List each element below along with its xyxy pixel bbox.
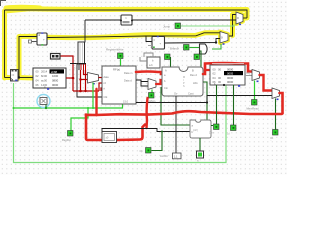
svg-text:0000: 0000 (52, 83, 59, 87)
wire: PC select / bottom loop (pale green) (14, 83, 227, 163)
svg-text:1,1: 1,1 (174, 155, 178, 159)
junction: instruction bus dots (95, 113, 98, 116)
svg-text:1000: 1000 (52, 74, 59, 78)
svg-text:04: 04 (36, 79, 40, 83)
wire: ALU Cin dark green down to ALUctl input 1 (161, 87, 190, 125)
svg-text:0000: 0000 (227, 80, 234, 84)
wire: Data B black to ALUSrc mux (136, 80, 148, 86)
wire: Jump signal to jump mux select (light green) (181, 25, 234, 27)
wire: black L from sign-ext top across to ALU control (102, 129, 190, 132)
svg-text:06: 06 (36, 83, 40, 87)
svg-text:ALUFn: ALUFn (160, 154, 169, 158)
multiplexer ALUSrc mux (148, 79, 156, 90)
svg-text:HIG: HIG (193, 81, 198, 85)
wire: rs/rt fields down from splitter (red) (80, 70, 82, 91)
pin ALUSrc (149, 93, 155, 99)
component: instruction field splitter (narrow vertical box) (70, 42, 86, 70)
svg-text:2014: 2014 (41, 70, 48, 74)
component: jump address box (120, 15, 133, 25)
svg-text:data: data (104, 75, 110, 79)
wire: RegWrite down into register file (120, 59, 122, 66)
svg-text:MemRead: MemRead (247, 107, 260, 111)
component: register file (102, 66, 136, 104)
svg-text:00: 00 (218, 67, 222, 71)
svg-text:0800: 0800 (52, 79, 59, 83)
wire: RegDst control staircase to RegDst pin (71, 108, 88, 131)
yellow highlight: PC feedback loop (selected wires) (5, 9, 248, 78)
wire: RegDst mux select down (bright green) (92, 83, 94, 109)
svg-text:2c88: 2c88 (51, 70, 58, 74)
svg-text:Data m: Data m (124, 71, 132, 75)
wire: ALU result branch down to RAM address (205, 64, 210, 71)
pin Zero (green square under RAM) (214, 124, 220, 130)
wire: ALUSrc select (151, 90, 153, 94)
svg-text:RF(a): RF(a) (113, 68, 120, 72)
wire: jump addr from splitter up to jump box (85, 19, 121, 21)
wire: ALUSrc mux output to ALU b (156, 80, 162, 84)
constant 4 for adder (31, 41, 37, 43)
component: branch target adder (148, 36, 165, 49)
svg-text:Branch: Branch (170, 47, 180, 51)
svg-text:000: 000 (246, 72, 251, 75)
wire: branch mux output up to jump mux input 0 (229, 15, 236, 37)
pin RegDst (68, 131, 74, 137)
component: ALU control (chip with notch) (190, 120, 211, 138)
wire: jump address bus (black, jump box to jump mux input 1) (132, 19, 236, 21)
wire: ALU result (thick red) right, up and across RAM top (203, 63, 252, 74)
pin MemWrite (231, 125, 237, 131)
svg-text:A: A (165, 69, 167, 73)
svg-text:00: 00 (36, 70, 40, 74)
wire: read-address bus along y=91 into regfile (73, 90, 99, 92)
component: instruction probe box (51, 54, 61, 60)
svg-text:RegDst: RegDst (62, 138, 71, 142)
svg-text:15,0: 15,0 (123, 100, 129, 104)
svg-text:02: 02 (36, 74, 40, 78)
multiplexer RegDst mux (88, 73, 99, 85)
wire: control line RegWrite row (bright green horizontal) (14, 104, 123, 108)
multiplexer jump mux (top right) (236, 12, 243, 24)
component: ALU (chip with top notch) (162, 67, 203, 96)
wire: clock-ish line from splitter to regfile clk (77, 70, 102, 97)
svg-text:rt: rt (104, 87, 106, 91)
wire: instruction vertical riser to probe (60, 56, 73, 91)
gate: AND (Branch & Zero) (200, 44, 208, 54)
wire: ALU HIG out jog down to ALUctl top (203, 82, 207, 120)
wire: dark green from RAM bottom to Zero square (216, 85, 218, 124)
component: PC+4 adder (37, 32, 47, 45)
node: blue floating select marks on muxes (239, 24, 241, 26)
wire: Data A thick red to ALU a (136, 72, 162, 75)
wire: WB mux select down to MemRead pin (254, 81, 256, 101)
wire: branch adder output to branch mux input 1 (165, 39, 220, 44)
pin ALUOp (green square, bottom left of ALUctl) (146, 148, 152, 154)
wire: black into mux2 input1 from ALU bottom rail (136, 96, 272, 103)
component: data memory RAM (210, 65, 245, 87)
wire: AND output to branch mux select (212, 44, 221, 49)
component: probe (selected, cyan halo) (37, 95, 50, 110)
wire: jump mux output up to top bus (243, 17, 247, 19)
wire: WB mux1 output red to mux2 (260, 75, 273, 91)
component: sign extend box (102, 132, 117, 143)
multiplexer final WB mux (right edge) (272, 88, 280, 99)
wire: instruction bus ROM output (66, 77, 73, 79)
svg-text:8c00: 8c00 (41, 74, 48, 78)
wire: ALU Ov down to ALUFn splitter (175, 96, 177, 153)
wire: PC+4 bus to branch mux (47, 33, 220, 38)
wire: ALUctl right pin to Zero square (211, 125, 213, 127)
svg-text:+: + (43, 38, 45, 42)
svg-text:a·b: a·b (149, 63, 153, 67)
pin RegisterWrite (118, 53, 124, 59)
multiplexer MemToReg mux (WB mux 1) (252, 70, 260, 81)
pin ALU top B (green square) (194, 54, 200, 60)
pin ALU top A (green square) (165, 54, 171, 60)
svg-text:00: 00 (218, 80, 222, 84)
svg-text:Cin: Cin (164, 86, 168, 90)
wire: PC D stub (5, 77, 11, 79)
wire: tap PC+4 down into branch adder input a (146, 36, 152, 42)
wire: down to ALU pin A (170, 57, 172, 67)
wire: Zero input rising from ALU area to AND gate (200, 51, 202, 67)
wire: ALUctl bottom dark green down to clock component (199, 138, 201, 151)
svg-text:Jump: Jump (163, 25, 170, 29)
svg-text:Res d: Res d (190, 73, 197, 77)
svg-text:Cout: Cout (188, 92, 194, 96)
wire: red through sign-extend to riser x=142 (116, 125, 145, 141)
wire: final mux select down to pin (275, 99, 277, 131)
wire: top bus PC next value (5, 10, 248, 18)
svg-text:A: A (44, 85, 46, 89)
svg-text:[ctrl]: [ctrl] (193, 129, 198, 132)
multiplexer branch mux (top right) (220, 32, 228, 44)
component: small box above ALU (shift/aux) (147, 57, 160, 68)
pin Jump (green input square) (175, 23, 181, 29)
yellow glow around top-right muxes (236, 12, 243, 24)
component: PC register (selected, yellow) (11, 70, 19, 82)
wire: ALUOp to ALUctl input b (152, 132, 163, 151)
wire: dark green RAM bottom to MemWrite square (233, 85, 235, 125)
wire: RegDst mux output to regfile write-reg (99, 77, 103, 79)
svg-text:Data d: Data d (124, 79, 132, 83)
svg-text:ac00: ac00 (41, 79, 48, 83)
wire: Branch to AND gate (190, 47, 200, 49)
component: clock/LED bottom (197, 151, 204, 163)
wire: red riser crossing (x=147) (147, 98, 148, 128)
svg-text:RegisterWrite: RegisterWrite (106, 48, 124, 52)
wire: PC Q to ROM address (18, 77, 34, 79)
wire: PC Q up to +4 adder (19, 37, 37, 78)
pin MemtoReg (273, 130, 279, 136)
window corner artifact top-left (0, 0, 6, 6)
pin MemRead (252, 100, 258, 106)
svg-text:B: B (192, 69, 194, 73)
wire: write-back thick red from final mux down and across to the left (86, 93, 283, 140)
wire: PC D input (black core under yellow left vertical) (4, 10, 6, 78)
svg-text:Zero: Zero (209, 132, 214, 135)
wire: RAM data out (gray floating) to WB mux (245, 75, 252, 77)
wire: red riser near regfile (x=96) (95, 89, 97, 115)
component: instruction memory ROM (33, 68, 66, 90)
